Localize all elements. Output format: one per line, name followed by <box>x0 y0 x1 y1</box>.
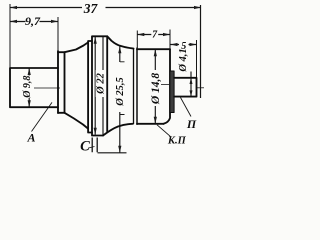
svg-text:Ø 22: Ø 22 <box>96 72 107 94</box>
svg-text:Ø 4,1: Ø 4,1 <box>178 48 189 72</box>
svg-text:С: С <box>80 139 90 155</box>
svg-text:9,7: 9,7 <box>25 14 41 28</box>
svg-text:Ø 14,8: Ø 14,8 <box>150 73 162 106</box>
svg-text:37: 37 <box>83 1 99 16</box>
svg-text:К.П: К.П <box>167 135 187 146</box>
svg-text:A: A <box>26 131 35 145</box>
svg-text:П: П <box>186 117 197 131</box>
svg-text:Ø 25,5: Ø 25,5 <box>115 77 126 107</box>
svg-text:Ø 9,8: Ø 9,8 <box>22 76 33 99</box>
